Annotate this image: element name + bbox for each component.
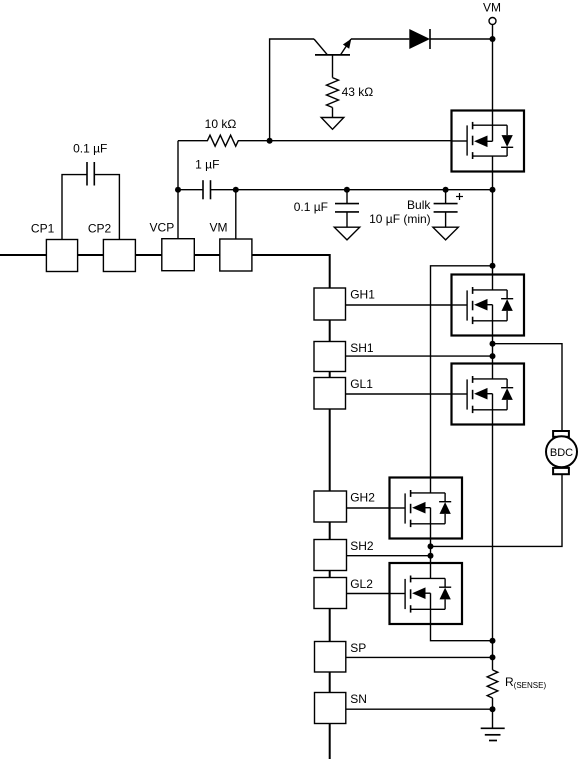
capacitor 0.1 uF bypass [335, 190, 359, 228]
svg-text:CP2: CP2 [88, 222, 112, 236]
wire GH1 source to GL1 drain [492, 336, 494, 364]
node SH2 motor [428, 543, 434, 549]
wire emitter to diode [351, 38, 409, 40]
svg-text:VM: VM [210, 221, 228, 235]
wire VM box riser [235, 190, 237, 239]
resistor 10 kOhm [178, 135, 452, 146]
wire SH1 to motor top [493, 344, 563, 431]
pin SP [315, 642, 346, 673]
wire GL1 source down to sense node [492, 425, 494, 670]
svg-text:GL1: GL1 [350, 377, 373, 391]
mosfet GL2 low-side FET [390, 563, 463, 624]
svg-text:R(SENSE): R(SENSE) [505, 675, 546, 690]
terminal VM [489, 18, 496, 25]
wire GL2 source to sense node [431, 624, 493, 641]
ground (triangle under 43k) [321, 118, 344, 130]
pin GL1 [314, 378, 346, 410]
node SN [490, 706, 496, 712]
wire SH2 to motor bottom [431, 474, 563, 546]
node bridge2 branch [490, 263, 496, 269]
wire main vertical pin bus [329, 254, 331, 759]
wire SN pin [346, 708, 493, 710]
node VM top [490, 36, 496, 42]
node SP [490, 654, 496, 660]
svg-text:VM: VM [483, 1, 501, 15]
mosfet GH2 high-side FET [390, 478, 463, 539]
transistor/mosfet Q-VM protection FET (mirrored) [452, 111, 525, 172]
pin VCP [162, 239, 195, 271]
wire main horizontal pin bus [0, 254, 330, 256]
wire resistor to ground [332, 108, 334, 119]
wire GL1 gate [346, 393, 452, 395]
wire SH2 pin [347, 555, 431, 557]
svg-text:43 kΩ: 43 kΩ [342, 85, 374, 99]
svg-text:SP: SP [350, 641, 366, 655]
wire SP pin [346, 656, 493, 658]
pin SN [315, 693, 346, 724]
ground (earth under R sense) [481, 728, 505, 740]
pin CP2 [103, 240, 135, 272]
pin CP1 [46, 240, 77, 272]
mosfet GH1 high-side FET [452, 275, 525, 336]
svg-text:BDC: BDC [550, 447, 573, 459]
resistor 43 kOhm [327, 78, 339, 108]
wire VCP-VM bulk rail [178, 189, 203, 191]
node VM rail [233, 187, 239, 193]
mosfet GL1 low-side FET [452, 364, 525, 425]
node VCP rail [175, 187, 181, 193]
wire SH1 pin [346, 355, 493, 357]
wire VM down to protection FET [492, 25, 494, 111]
wire capacitor to CP2 [94, 175, 119, 240]
resistor R(SENSE) [487, 670, 498, 698]
pin GH1 [314, 288, 346, 320]
capacitor bulk 10 uF [434, 190, 463, 228]
pin SH2 [314, 540, 347, 571]
pin VM [220, 239, 252, 271]
svg-text:GL2: GL2 [350, 577, 373, 591]
svg-text:GH2: GH2 [350, 491, 375, 505]
wire VM branch to bridge2 [431, 266, 493, 478]
svg-text:GH1: GH1 [350, 288, 375, 302]
wire collector riser [270, 39, 314, 141]
svg-text:VCP: VCP [150, 221, 175, 235]
svg-text:CP1: CP1 [31, 222, 55, 236]
svg-text:SH2: SH2 [350, 539, 374, 553]
node SH1 motor [490, 341, 496, 347]
ground (triangle under bulk cap) [433, 227, 458, 240]
svg-text:SN: SN [350, 692, 367, 706]
svg-text:Bulk: Bulk [407, 198, 431, 212]
svg-text:SH1: SH1 [350, 341, 374, 355]
transistor Q1 [314, 39, 351, 78]
wire GL2 gate [347, 593, 390, 595]
svg-text:10 µF (min): 10 µF (min) [369, 212, 431, 226]
wire CP1 to capacitor loop [62, 175, 87, 240]
svg-text:0.1 µF: 0.1 µF [73, 142, 107, 156]
wire GH2 gate [347, 507, 390, 509]
wire sense resistor to ground [492, 698, 494, 728]
svg-text:0.1 µF: 0.1 µF [294, 200, 328, 214]
node bulk cap [443, 187, 449, 193]
wire 1 uF to VM rail [211, 189, 493, 191]
node SH1 pin [490, 353, 496, 359]
node VM vertical rail [490, 187, 496, 193]
motor BDC [546, 431, 577, 474]
capacitor 0.1 uF (CP1-CP2) [86, 162, 88, 186]
pin SH1 [314, 342, 346, 372]
svg-text:10 kΩ: 10 kΩ [205, 117, 237, 131]
wire protection FET to GH1 FET [492, 172, 494, 275]
ground (triangle under 0.1 uF) [334, 227, 359, 240]
diode D1 [409, 29, 430, 49]
node SH2 pin [428, 553, 434, 559]
pin GL2 [314, 578, 347, 609]
svg-text:1 µF: 1 µF [195, 157, 219, 171]
node sense top [490, 638, 496, 644]
node bypass cap [344, 187, 350, 193]
wire diode to VM node [430, 38, 493, 40]
wire GH2 source to GL2 drain [430, 539, 432, 564]
node 10k junction [267, 138, 273, 144]
wire VCP riser [177, 141, 179, 239]
capacitor 1 uF [202, 180, 204, 199]
pin GH2 [314, 491, 347, 522]
wire GH1 gate [346, 304, 452, 306]
